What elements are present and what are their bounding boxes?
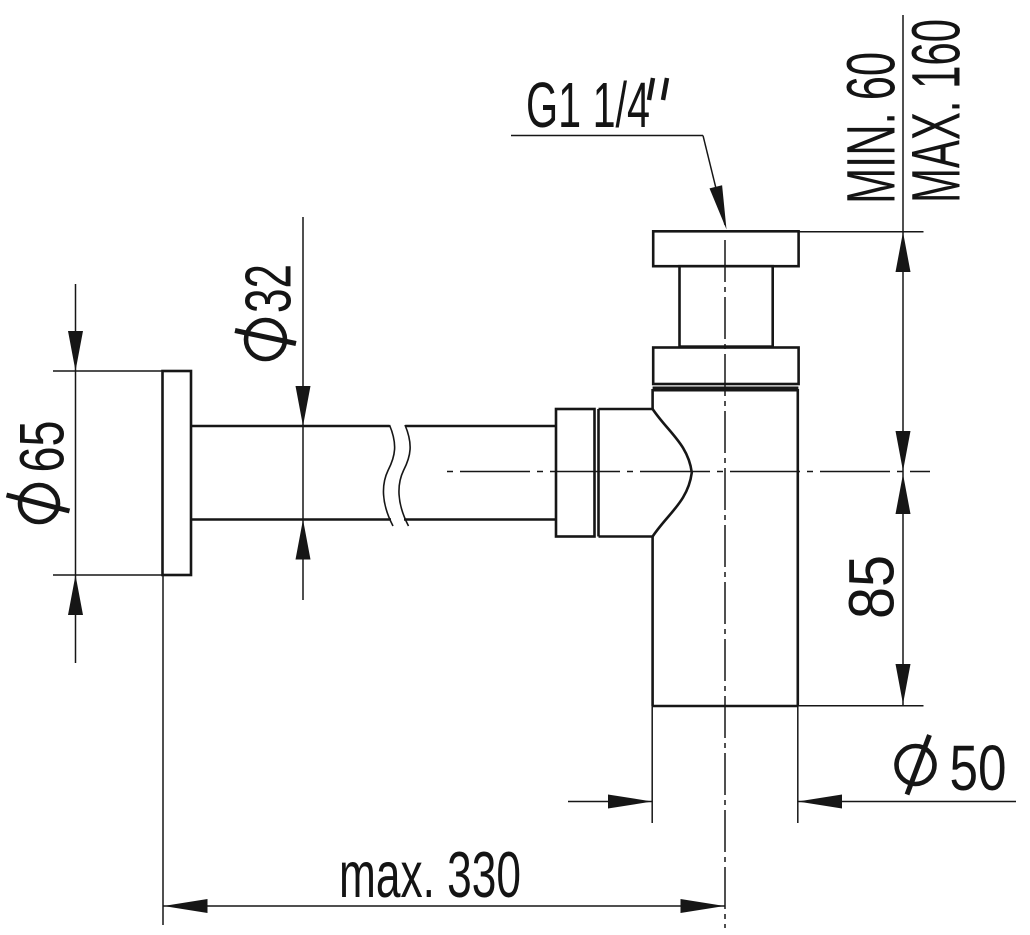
- extension line left vertical for max330: [162, 575, 164, 925]
- label phi50 diameter symbol: [897, 735, 935, 795]
- pipe break squiggle left: [383, 425, 394, 526]
- label phi65 diameter symbol: [7, 485, 70, 522]
- arrow down phi65 top: [68, 331, 83, 371]
- arrow up phi65 bottom: [68, 575, 83, 615]
- extension line bottom right: [798, 705, 924, 707]
- centerline vertical: [724, 240, 726, 928]
- label phi32 diameter symbol: [235, 320, 296, 359]
- elbow top edge: [599, 408, 653, 411]
- dimension line phi50 right segment: [798, 801, 1016, 803]
- svg-text:50: 50: [950, 732, 1007, 804]
- trap body right edge: [796, 389, 799, 706]
- extension line phi50 left: [651, 706, 653, 823]
- trap body left edge lower: [651, 537, 654, 707]
- dimension line min60 max160 and 85: [902, 15, 904, 706]
- leader quote ticks: [649, 78, 653, 100]
- leader line horizontal: [511, 135, 703, 137]
- arrow right max330: [681, 899, 725, 913]
- arrow up phi32 bottom: [296, 520, 311, 560]
- wall flange plate: [163, 371, 192, 575]
- extension line phi50 right: [797, 706, 799, 823]
- dimension line max330: [163, 905, 725, 907]
- arrow down at centerline: [896, 431, 911, 471]
- lower flange: [653, 348, 798, 385]
- arrow up below centerline: [896, 474, 911, 514]
- extension line top of flange: [53, 370, 162, 372]
- trap body bottom edge: [653, 705, 798, 708]
- arrow up at 232: [896, 232, 911, 272]
- dimension line phi32: [302, 217, 304, 600]
- svg-text:max. 330: max. 330: [339, 838, 521, 911]
- svg-text:65: 65: [8, 421, 78, 473]
- elbow dome: [653, 409, 692, 537]
- dimension line phi50 left segment: [568, 801, 652, 803]
- top flange: [653, 231, 798, 266]
- arrow left max330: [164, 899, 208, 913]
- pipe break squiggle right: [399, 425, 410, 526]
- leader arrow: [710, 185, 727, 229]
- pipe top edge: [191, 425, 390, 428]
- leader line diagonal: [703, 136, 725, 226]
- arrow left phi50: [798, 795, 842, 809]
- compression nut: [556, 409, 595, 537]
- extension line bottom of flange: [53, 574, 162, 576]
- arrow down at body bottom: [896, 664, 911, 704]
- trap body left edge upper: [651, 389, 654, 409]
- arrow down phi32 top: [296, 386, 311, 426]
- svg-text:85: 85: [836, 555, 908, 619]
- neck: [680, 266, 773, 346]
- arrow right phi50: [608, 795, 652, 809]
- seal thick line: [653, 387, 799, 392]
- elbow bottom edge: [599, 535, 653, 538]
- pipe bottom edge: [191, 518, 391, 521]
- svg-text:32: 32: [232, 264, 305, 313]
- centerline horizontal: [447, 471, 930, 473]
- svg-text:MAX. 160: MAX. 160: [898, 19, 975, 203]
- dimension line phi65: [75, 284, 77, 663]
- svg-text:G1 1/4: G1 1/4: [526, 69, 650, 141]
- extension line top right: [799, 231, 924, 233]
- elbow inlet left edge: [597, 409, 600, 537]
